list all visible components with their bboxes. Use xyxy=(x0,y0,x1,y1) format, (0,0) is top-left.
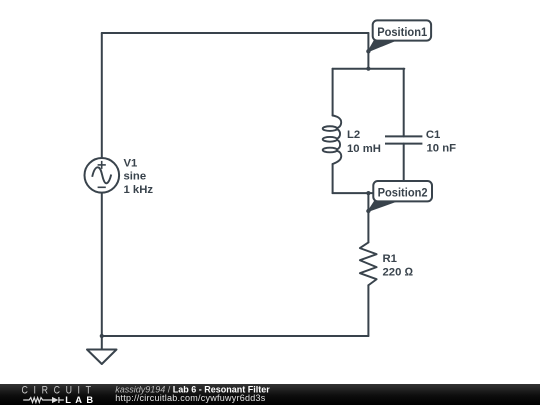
V1 plus sign xyxy=(98,164,106,166)
wire left vertical upper xyxy=(101,33,103,158)
wire right branch upper xyxy=(403,69,405,137)
svg-text:LAB: LAB xyxy=(65,395,97,405)
wire below resistor xyxy=(367,285,369,336)
wire top horizontal xyxy=(102,32,369,34)
svg-text:Position2: Position2 xyxy=(378,186,428,200)
V1 sine symbol xyxy=(92,167,111,183)
node Position1 flag xyxy=(366,20,431,53)
wire LC top bar xyxy=(333,68,405,70)
junction node on top bar xyxy=(366,67,370,71)
wire ground stub xyxy=(101,336,103,350)
node Position2 flag xyxy=(366,181,432,213)
inductor L2 xyxy=(323,116,342,165)
wire bottom horizontal xyxy=(102,335,369,337)
voltage source V1 xyxy=(85,158,120,193)
wire left branch lower xyxy=(332,164,334,193)
wire left branch upper xyxy=(332,69,334,116)
junction node at ground xyxy=(100,334,104,338)
wire right branch lower xyxy=(403,144,405,194)
capacitor C1 xyxy=(385,136,422,143)
wire right vertical drop xyxy=(367,33,369,69)
svg-text:Position1: Position1 xyxy=(377,25,427,39)
junction node on bottom bar xyxy=(366,191,370,195)
CircuitLab logo resistor-diode symbol xyxy=(23,397,64,403)
V1 circle body xyxy=(85,158,120,193)
resistor R1 xyxy=(360,242,377,285)
wire left vertical lower xyxy=(101,193,103,336)
svg-text:http://circuitlab.com/cywfuwyr: http://circuitlab.com/cywfuwyr6dd3s xyxy=(115,393,266,403)
wire center to resistor xyxy=(367,193,369,242)
wire LC bottom bar xyxy=(333,192,405,194)
ground xyxy=(87,350,117,365)
V1 minus sign xyxy=(98,186,106,188)
